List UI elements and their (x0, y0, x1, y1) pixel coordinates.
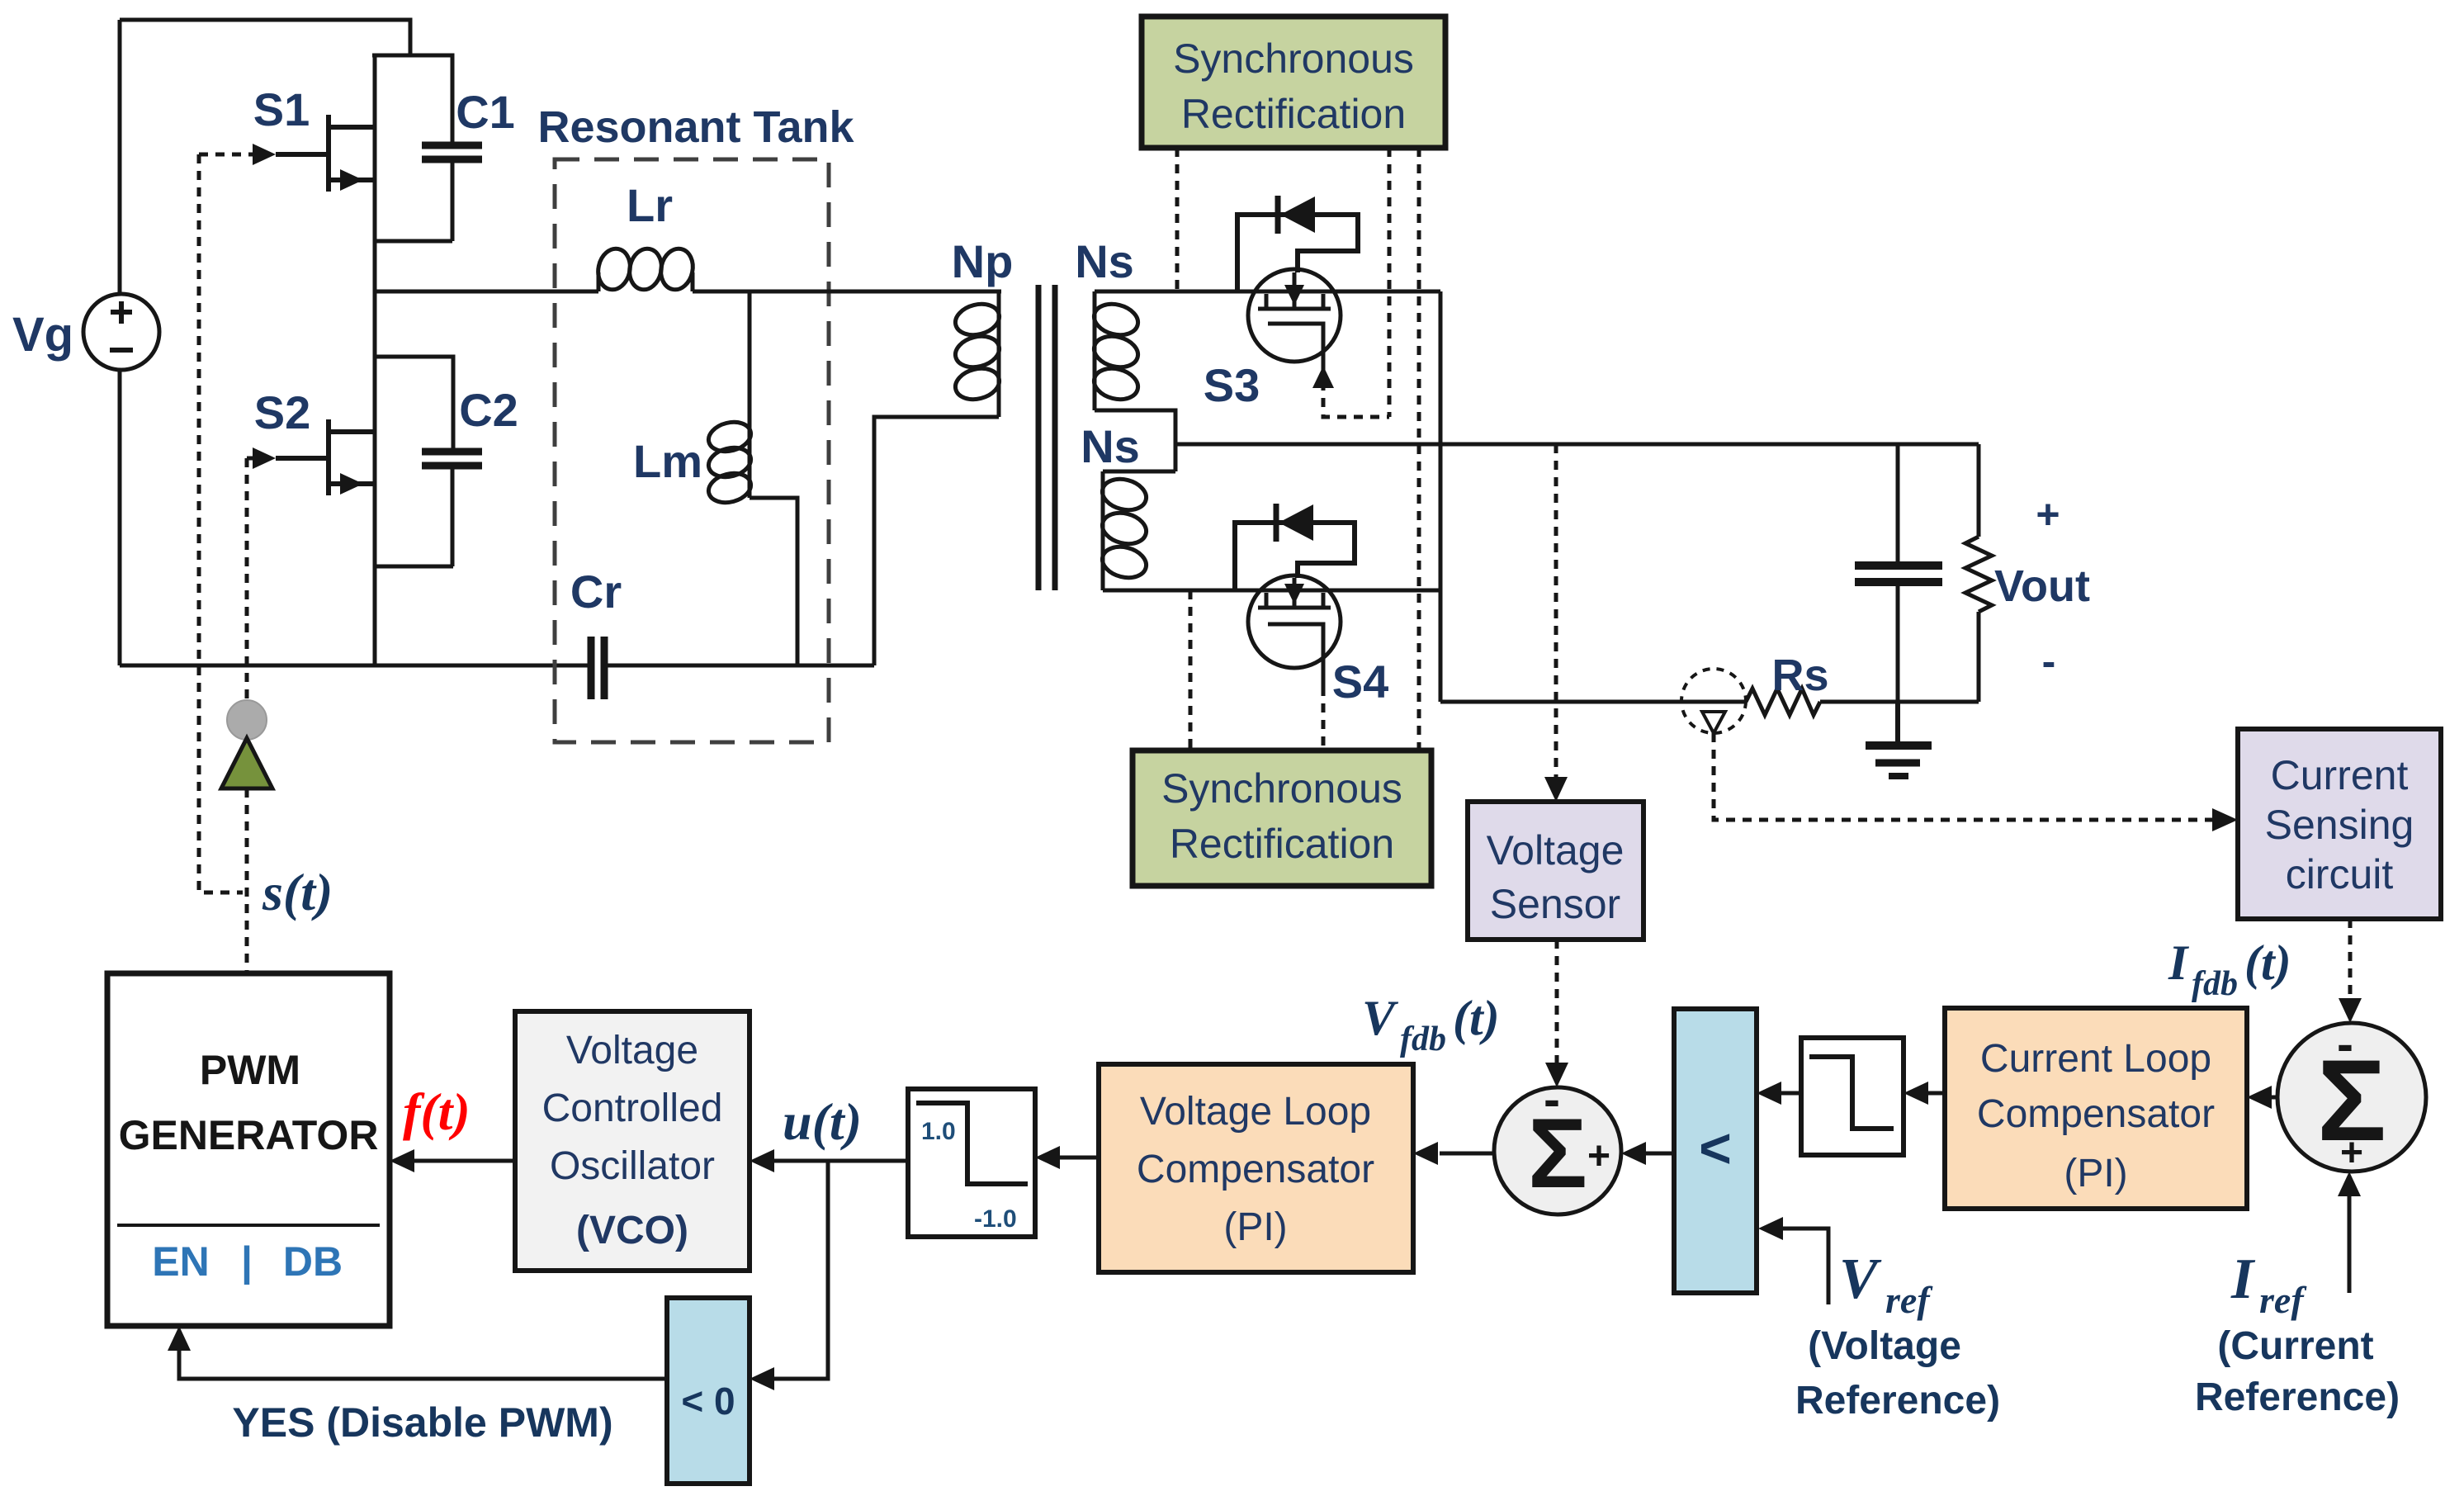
svg-text:Voltage: Voltage (566, 1029, 698, 1072)
capacitor C1 (422, 145, 482, 159)
wire bottom rail Cr to Np return (607, 664, 874, 668)
svg-text:V: V (1839, 1247, 1882, 1311)
svg-text:ref: ref (2259, 1279, 2307, 1321)
svg-text:YES (Disable PWM): YES (Disable PWM) (232, 1399, 612, 1446)
wire Vg left vertical top (118, 20, 122, 294)
svg-text:Lr: Lr (627, 179, 673, 231)
arrow into current sensing circuit (2212, 808, 2238, 831)
svg-text:Ns: Ns (1081, 420, 1140, 472)
svg-text:Current Loop: Current Loop (1980, 1037, 2211, 1081)
load resistor Vout (1965, 444, 1992, 702)
current sense probe arrow (1702, 712, 1725, 733)
dashed line s(t) to PWM generator (245, 788, 249, 972)
svg-text:(t): (t) (2244, 935, 2291, 990)
dashed line current sensing to summing2 (2348, 919, 2353, 1004)
svg-text:Sensing: Sensing (2265, 802, 2414, 848)
arrow into current loop compensator (2247, 1086, 2272, 1109)
dashed control line top box to S3 drain (1175, 148, 1180, 291)
wire Vref into comparator (1776, 1229, 1828, 1304)
node gray circle (227, 700, 267, 740)
resistor Rs (1746, 689, 1820, 715)
svg-text:-: - (2337, 1016, 2353, 1072)
mosfet S3 circle and symbol (1248, 269, 1341, 372)
svg-text:(PI): (PI) (2064, 1152, 2127, 1195)
arrow into comparator (1757, 1082, 1781, 1105)
wire u(t) junction down to less-than-zero (768, 1161, 828, 1379)
arrow into summing1 top (1545, 1063, 1568, 1087)
svg-text:+: + (2340, 1131, 2363, 1175)
gate drive dashed arrow into S2 (247, 457, 254, 461)
wire rectifier common vertical (1439, 291, 1443, 702)
transistor S2 body block (373, 357, 453, 665)
gate drive dashed line s2 vertical (245, 458, 249, 701)
transistor S1 mosfet symbol (276, 115, 375, 192)
dashed control line top box to bottom box (1417, 148, 1421, 750)
wire switch node to resonant tank (375, 290, 598, 294)
wire summing1 to compensator (1440, 1152, 1495, 1156)
output capacitor (1855, 444, 1942, 702)
svg-text:Reference): Reference) (1795, 1379, 2000, 1423)
svg-text:Synchronous: Synchronous (1161, 765, 1402, 812)
wire compensator to limiter (1053, 1156, 1099, 1160)
svg-text:-: - (2042, 638, 2056, 684)
block less than zero (667, 1298, 750, 1484)
svg-text:(VCO): (VCO) (576, 1209, 688, 1252)
arrow into PWM (390, 1149, 414, 1172)
block Synchronous Rectification top (1142, 17, 1445, 148)
arrow into voltage loop compensator (1413, 1142, 1438, 1165)
svg-text:fdb: fdb (1400, 1020, 1446, 1058)
arrow into voltage sensor (1544, 777, 1568, 802)
svg-text:S3: S3 (1204, 359, 1260, 411)
dashed line sense to current sensing circuit (1714, 733, 2216, 820)
svg-text:Oscillator: Oscillator (550, 1144, 715, 1188)
dashed line output rail to voltage sensor (1554, 444, 1558, 782)
wire Ns top to S3 and rectifier common (1095, 290, 1440, 294)
svg-text:I: I (2168, 935, 2190, 990)
wire limiter to VCO (768, 1159, 908, 1163)
svg-text:(Voltage: (Voltage (1808, 1324, 1961, 1368)
mosfet S4 circle and symbol (1248, 575, 1341, 687)
svg-text:<: < (1699, 1117, 1732, 1180)
block Current Loop Compensator (1945, 1008, 2247, 1209)
svg-text:S1: S1 (253, 83, 310, 135)
wire relay to comparator (1775, 1091, 1801, 1096)
svg-text:-1.0: -1.0 (974, 1205, 1017, 1233)
svg-text:GENERATOR: GENERATOR (119, 1112, 379, 1158)
svg-text:s(t): s(t) (262, 863, 333, 921)
svg-text:Rectification: Rectification (1181, 91, 1406, 137)
wire bottom rail Vg to Cr (120, 664, 589, 668)
transformer core (1038, 285, 1055, 590)
mosfet S3 channel arrow (1284, 285, 1304, 305)
svg-text:(Current: (Current (2217, 1324, 2373, 1368)
wire current compensator to relay (1922, 1091, 1945, 1096)
svg-text:Reference): Reference) (2195, 1375, 2400, 1419)
arrow into less-than-zero box (750, 1367, 774, 1390)
svg-text:Vg: Vg (12, 308, 73, 362)
dashed gate line of S3 (1323, 381, 1389, 417)
dashed line voltage sensor to summing1 (1555, 940, 1559, 1068)
svg-text:Resonant Tank: Resonant Tank (537, 102, 854, 152)
svg-text:< 0: < 0 (681, 1380, 735, 1423)
wire top rail from Vg to S1 drain (120, 20, 410, 55)
block comparator less-than (1674, 1009, 1757, 1293)
svg-text:Synchronous: Synchronous (1173, 36, 1414, 82)
wire Vg left vertical bottom (118, 370, 122, 665)
mosfet S3 body diode loop (1237, 215, 1358, 291)
ground (1866, 702, 1932, 776)
wire Iref into summing2 (2348, 1190, 2352, 1293)
wire output negative rail left part (1440, 700, 1746, 704)
svg-text:EN: EN (152, 1238, 209, 1285)
arrow into relay (1904, 1082, 1928, 1105)
capacitor Cr (591, 637, 604, 699)
svg-text:PWM: PWM (200, 1047, 300, 1093)
wire summing2 to current compensator (2265, 1096, 2277, 1100)
svg-text:Controlled: Controlled (542, 1086, 723, 1130)
wire output negative rail right part (1820, 700, 1979, 704)
arrow into summing1 right (1621, 1142, 1646, 1165)
gate drive dashed line s1 vertical (199, 154, 243, 892)
wire comparator to summing1 (1639, 1152, 1674, 1156)
block Synchronous Rectification bottom (1133, 750, 1431, 886)
wire Ns bottom to S4 (1103, 589, 1440, 593)
block Voltage Loop Compensator (1099, 1064, 1413, 1272)
driver triangle (221, 738, 272, 788)
svg-text:Voltage: Voltage (1487, 827, 1625, 873)
mosfet S3 gate arrow (1312, 366, 1334, 388)
svg-text:u(t): u(t) (783, 1092, 862, 1151)
arrow into limiter (1035, 1146, 1060, 1169)
svg-text:I: I (2230, 1247, 2256, 1311)
transistor S1 body arrow (340, 169, 363, 191)
svg-text:(t): (t) (1453, 991, 1500, 1045)
transistor S2 mosfet symbol (276, 419, 375, 495)
svg-text:Rectification: Rectification (1170, 821, 1394, 867)
transformer secondary winding Ns bottom (1099, 471, 1175, 590)
transformer primary winding Np (874, 291, 1003, 665)
svg-text:Np: Np (952, 235, 1014, 287)
svg-text:(PI): (PI) (1223, 1205, 1287, 1249)
mosfet S4 body diode loop (1235, 523, 1355, 590)
diode of S4 (1276, 504, 1313, 542)
voltage source Vg (83, 294, 159, 370)
transistor S1 body block (372, 55, 452, 357)
inductor Lm (706, 291, 797, 665)
capacitor C2 (422, 452, 482, 466)
svg-text:f(t): f(t) (403, 1082, 471, 1141)
svg-text:Cr: Cr (570, 566, 622, 618)
block PWM GENERATOR (107, 973, 390, 1326)
svg-text:fdb: fdb (2192, 965, 2238, 1003)
svg-text:C2: C2 (459, 384, 518, 436)
arrow into summing2 top (2339, 998, 2362, 1023)
svg-text:C1: C1 (456, 86, 515, 138)
svg-text:Sensor: Sensor (1490, 881, 1620, 927)
svg-text:S4: S4 (1332, 656, 1389, 708)
svg-text:Compensator: Compensator (1137, 1148, 1374, 1191)
gate drive dashed arrow into S1 (199, 153, 254, 157)
current sense probe dashed circle (1681, 669, 1746, 733)
svg-text:DB: DB (283, 1238, 343, 1285)
wire output positive rail from midtap (1175, 443, 1979, 447)
arrow into PWM bottom (168, 1326, 191, 1351)
svg-text:Rs: Rs (1771, 651, 1828, 700)
svg-text:Current: Current (2271, 752, 2409, 798)
wire VCO to PWM (408, 1159, 515, 1163)
block limiter (908, 1089, 1035, 1237)
svg-text:Compensator: Compensator (1977, 1092, 2215, 1136)
inductor Lr (594, 246, 750, 293)
svg-text:+: + (2036, 491, 2060, 537)
svg-text:|: | (241, 1238, 253, 1285)
svg-text:Voltage Loop: Voltage Loop (1140, 1090, 1371, 1134)
summing junction voltage loop (1494, 1072, 1621, 1214)
svg-text:1.0: 1.0 (921, 1118, 956, 1145)
block Voltage Controlled Oscillator (515, 1011, 750, 1271)
transformer secondary winding Ns top (1090, 291, 1175, 471)
svg-text:+: + (1587, 1134, 1610, 1178)
diode of S3 (1278, 196, 1315, 234)
svg-text:V: V (1362, 991, 1399, 1045)
svg-text:Vout: Vout (1994, 561, 2090, 611)
transistor S2 body arrow (340, 473, 363, 495)
svg-text:ref: ref (1885, 1279, 1933, 1321)
wire Lr to Np (750, 290, 1001, 294)
block Voltage Sensor (1468, 802, 1643, 940)
dashed control line top box to S3 gate (1388, 148, 1392, 417)
dashed gate line of S4 (1322, 687, 1326, 750)
block relay (1801, 1038, 1904, 1155)
wire less-than-zero to PWM enable (179, 1344, 667, 1379)
svg-text:S2: S2 (254, 386, 311, 438)
arrow Iref into summing2 (2338, 1172, 2361, 1196)
resonant tank dashed box (555, 159, 829, 742)
arrow Vref into comparator (1758, 1217, 1783, 1240)
dashed control line bottom box to S4 drain (1189, 590, 1193, 750)
block Current Sensing circuit (2238, 729, 2441, 919)
summing junction current loop (2277, 1016, 2426, 1175)
arrow into VCO (750, 1149, 774, 1172)
svg-text:circuit: circuit (2286, 851, 2394, 897)
svg-text:Lm: Lm (633, 435, 702, 487)
svg-text:Ns: Ns (1075, 235, 1134, 287)
mosfet S4 channel arrow (1284, 584, 1304, 604)
